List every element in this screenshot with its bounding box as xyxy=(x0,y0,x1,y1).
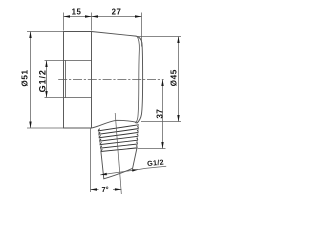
wire dim line left part xyxy=(91,189,99,191)
wire extension line bottom y97 xyxy=(45,97,64,99)
wire dimension line Ø45 xyxy=(178,37,180,122)
arrowhead dim 37 bottom xyxy=(161,142,163,149)
wire vertical reference line xyxy=(90,128,92,192)
wire collar right edge xyxy=(133,148,137,168)
wire inlet thread chamfer xyxy=(65,61,67,98)
wire inlet bore top line xyxy=(64,60,92,62)
wire extension line top y60 xyxy=(45,60,64,62)
wire collar left edge xyxy=(101,152,104,179)
wire dome outer profile xyxy=(136,36,143,123)
wire extension line mid x92 xyxy=(91,13,93,31)
svg-text:27: 27 xyxy=(112,8,122,17)
outlet thread G1/2 (coil) xyxy=(98,125,138,152)
dimension G1/2 inlet xyxy=(45,61,64,98)
wire thread crest 1 xyxy=(98,125,138,131)
wire extension line right x142 xyxy=(141,13,143,47)
wire extension line top y36 xyxy=(138,36,182,38)
wire thread left edge xyxy=(98,131,101,152)
wire thread crest 4 xyxy=(100,134,138,141)
wire thread crest 7 xyxy=(101,146,137,152)
arrowhead dim O45 top xyxy=(177,37,179,44)
svg-text:Ø51: Ø51 xyxy=(20,69,29,86)
wire thread crest 6 xyxy=(100,142,137,148)
arrowhead dim 37 top xyxy=(161,80,163,87)
svg-text:37: 37 xyxy=(155,109,164,119)
wire extension line bottom y148 xyxy=(138,148,166,150)
wire thread right edge xyxy=(137,125,139,148)
wire dimension line 27 xyxy=(92,16,142,18)
svg-text:Ø45: Ø45 xyxy=(170,69,179,86)
arrowhead dim G1/2 bottom xyxy=(45,91,47,98)
wire extension line bottom y121 xyxy=(141,121,181,123)
arrowhead dim 7deg left xyxy=(91,188,98,190)
svg-text:G1/2: G1/2 xyxy=(147,157,164,168)
wire outlet shoulder intersection curve xyxy=(92,120,138,128)
dimension Ø51 xyxy=(27,32,63,129)
arrowhead dim G1/2 top xyxy=(45,61,47,68)
wire dimension line outlet G1/2 xyxy=(100,170,138,175)
wall flange body (Ø51 escutcheon, side view) xyxy=(64,32,143,129)
wire thread crest 3 xyxy=(99,130,138,137)
wire extension line left x63 xyxy=(63,13,65,31)
dimension 7 degrees xyxy=(91,128,122,192)
arrowhead dim 27 left xyxy=(92,15,99,17)
wire thread crest 2 xyxy=(99,127,139,135)
outlet collar below thread xyxy=(101,148,137,179)
wire dim line right part xyxy=(113,188,121,190)
wire extension line bottom y128 xyxy=(27,127,63,129)
arrowhead dim O51 bottom xyxy=(29,122,31,129)
wire body top slant edge xyxy=(92,32,137,37)
svg-text:15: 15 xyxy=(72,8,82,17)
wire flange top edge xyxy=(64,31,92,33)
arrowhead dim 27 right xyxy=(135,15,142,17)
arrowhead dim 15 left xyxy=(64,15,71,17)
arrowhead dim 7deg right xyxy=(115,188,122,190)
dimension G1/2 outlet xyxy=(100,166,166,175)
wire dimension line G1/2 xyxy=(46,61,48,98)
wire flange left face xyxy=(63,32,65,129)
wire inlet bore bottom line xyxy=(64,97,92,99)
centerline outlet axis xyxy=(115,113,121,194)
svg-text:7°: 7° xyxy=(101,185,108,194)
wire outlet end face xyxy=(104,168,133,179)
wire dimension line Ø51 xyxy=(30,32,32,129)
arrowhead dim O45 bottom xyxy=(177,115,179,122)
arrowhead dim O51 top xyxy=(29,32,31,39)
wire flange right face xyxy=(91,32,93,129)
wire flange bottom edge xyxy=(64,127,92,129)
arrowhead dim 15 right xyxy=(85,15,92,17)
svg-text:G1/2: G1/2 xyxy=(37,69,47,92)
dimension Ø45 xyxy=(138,37,182,122)
wire thread crest 5 xyxy=(100,138,138,145)
wire extension line top y31 xyxy=(27,31,63,33)
centerline inlet axis xyxy=(58,79,163,81)
arrowhead outlet G1/2 left xyxy=(100,173,107,175)
wire dimension line 15 xyxy=(64,16,92,18)
wire dimension line 37 xyxy=(162,80,164,149)
wire dome inner contour xyxy=(136,36,140,122)
dimension 27 xyxy=(92,13,142,47)
dimension 37 xyxy=(138,80,166,149)
wire leader line under label xyxy=(139,166,167,169)
arrowhead outlet G1/2 right xyxy=(132,169,139,171)
dimension 15 xyxy=(64,13,92,31)
